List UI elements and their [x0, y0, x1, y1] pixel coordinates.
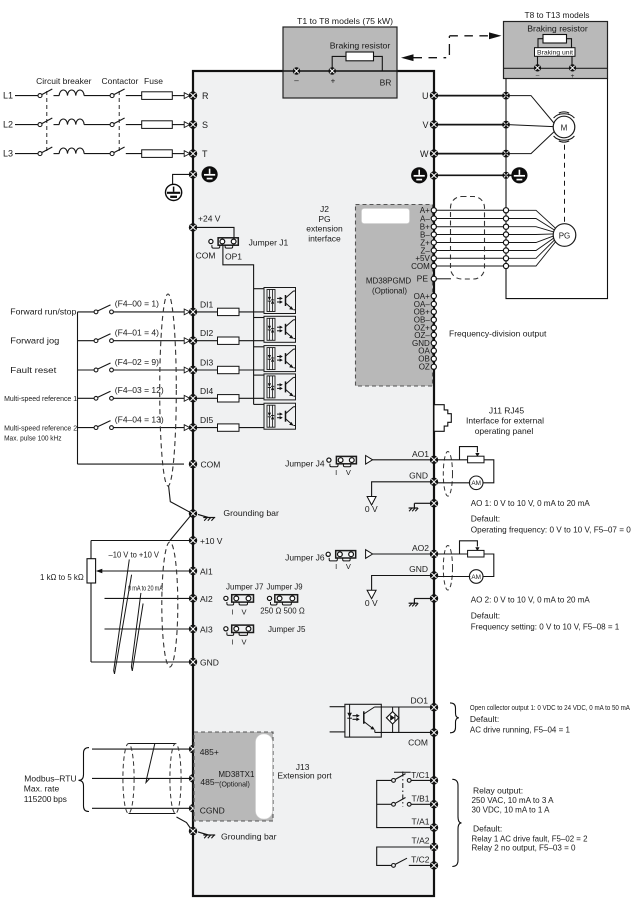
wire COM fan to PG: [509, 242, 556, 266]
main box top edge through braking box: [283, 70, 397, 72]
circuit breaker coil L2: [59, 119, 84, 125]
svg-text:PE: PE: [417, 274, 429, 284]
svg-text:Multi-speed reference 1: Multi-speed reference 1: [4, 396, 77, 403]
arrow into terminal S: [184, 122, 190, 128]
wire contactor to fuse L3: [126, 153, 142, 155]
svg-text:Braking resistor: Braking resistor: [330, 40, 391, 50]
wire J2 pin B– to PG cable: [437, 234, 504, 236]
terminal AO 2: [430, 550, 438, 558]
wire terminal to resistor DI3: [197, 369, 218, 371]
junction Z+ on motor cable: [503, 240, 508, 245]
wire J2 pin A+ to PG cable: [437, 209, 504, 211]
svg-text:+10 V: +10 V: [200, 536, 223, 546]
switch contact b DI1: [110, 310, 114, 314]
svg-text:Modbus–RTU: Modbus–RTU: [24, 773, 76, 783]
wire AO 2 to potentiometer: [438, 553, 468, 555]
terminal 485-: [189, 774, 197, 782]
svg-text:(F4–04 = 13): (F4–04 = 13): [115, 414, 164, 424]
DO1 internal stub top: [330, 706, 345, 708]
junction U on motor cable: [502, 92, 510, 100]
circuit breaker blade L1: [42, 89, 53, 95]
svg-text:I: I: [231, 638, 233, 647]
arrow into DI4: [184, 395, 190, 401]
DI2 input resistor: [218, 337, 240, 344]
DI1 input resistor: [218, 308, 240, 315]
svg-text:L1: L1: [3, 91, 13, 101]
switch contact a DI1: [94, 310, 98, 314]
svg-text:Open collector output 1: 0 VDC: Open collector output 1: 0 VDC to 24 VDC…: [470, 705, 630, 712]
wire bus stub to optocoupler DI1: [254, 288, 264, 290]
contactor blade L2: [114, 118, 125, 124]
svg-text:DO1: DO1: [411, 696, 429, 706]
wire A– fan to PG: [509, 219, 555, 230]
cable shield ellipse (AO 2): [443, 545, 452, 590]
protective earth symbol (input): [166, 184, 182, 200]
DO1 internal stub bottom: [330, 731, 345, 733]
svg-text:Grounding bar: Grounding bar: [223, 508, 279, 518]
svg-text:Jumper J6: Jumper J6: [285, 553, 325, 563]
svg-text:COM: COM: [408, 737, 428, 747]
svg-text:AI1: AI1: [200, 567, 213, 577]
svg-text:Fuse: Fuse: [144, 76, 163, 86]
svg-text:Jumper J4: Jumper J4: [285, 459, 325, 469]
svg-text:Default:: Default:: [471, 611, 500, 621]
svg-text:interface: interface: [308, 233, 341, 243]
J2 connector (white): [362, 209, 410, 224]
wire U to motor junction: [438, 95, 506, 97]
wiper loop (AO 2): [460, 541, 480, 554]
terminal - of braking unit: [534, 64, 541, 71]
wire buffer to AO 1: [373, 459, 430, 461]
arrow into DI1: [184, 309, 190, 315]
terminal + of braking unit: [569, 64, 576, 71]
terminal AI2: [189, 594, 197, 602]
svg-text:250 VAC, 10 mA to 3 A: 250 VAC, 10 mA to 3 A: [472, 795, 554, 805]
DO1 opto light arrows: [353, 714, 360, 721]
svg-text:Contactor: Contactor: [101, 76, 138, 86]
analog meter AM (AO 1): [469, 476, 483, 490]
svg-text:T8 to T13 models: T8 to T13 models: [525, 10, 590, 20]
pin A+: [431, 208, 436, 213]
terminal PE input: [189, 170, 197, 178]
pin OB: [431, 356, 436, 361]
svg-text:(Optional): (Optional): [372, 287, 407, 296]
svg-text:Relay 2 no output, F5–03 = 0: Relay 2 no output, F5–03 = 0: [472, 843, 576, 853]
chassis ground glyph 1: [198, 514, 215, 520]
chassis terminal (AO 2): [430, 594, 438, 602]
wire terminal to resistor DI1: [197, 311, 218, 313]
pin OZ: [431, 364, 436, 369]
svg-text:V: V: [241, 607, 246, 616]
svg-text:Default:: Default:: [473, 823, 502, 833]
svg-text:485–: 485–: [200, 777, 219, 787]
wire coil to contactor L2: [84, 124, 110, 126]
switch blade DI4: [98, 391, 111, 397]
switch contact a DI2: [94, 339, 98, 343]
pin OB+: [431, 309, 436, 314]
contactor linkage (dashed): [118, 91, 120, 151]
pin B+: [431, 224, 436, 229]
wire rail to switch DI5: [78, 427, 95, 429]
arrow into terminal R: [184, 93, 190, 99]
wire potentiometer to AM (AO 1): [483, 460, 494, 483]
junction B– on motor cable: [503, 232, 508, 237]
wire buffer to AO 2: [373, 553, 430, 555]
terminal COM (DO): [430, 728, 438, 736]
svg-text:MD38TX1: MD38TX1: [218, 770, 255, 779]
wire resistor to optocoupler DI2: [239, 340, 264, 342]
svg-text:AO 2: 0 V to 10 V, 0 mA to 20: AO 2: 0 V to 10 V, 0 mA to 20 mA: [471, 595, 590, 605]
wire braking resistor to BR: [374, 56, 383, 70]
svg-text:Default:: Default:: [471, 513, 500, 523]
relay 1 contact T/C1: [392, 774, 430, 783]
svg-text:U: U: [422, 91, 429, 101]
terminal V: [430, 120, 438, 128]
wire terminal to resistor DI2: [197, 340, 218, 342]
svg-text:–: –: [536, 73, 540, 80]
optocoupler DI2: [264, 316, 296, 342]
relay 1 NC bar: [394, 771, 411, 773]
terminal DI4: [189, 394, 197, 402]
PG cable shield (dashed): [451, 197, 485, 280]
pin +5V: [431, 256, 436, 261]
switch contact a DI4: [94, 396, 98, 400]
wire L2 to circuit breaker: [15, 124, 38, 126]
svg-text:operating panel: operating panel: [475, 426, 534, 436]
dashed arrow to T1-T8 box (left pointing): [401, 36, 449, 61]
svg-text:0 V: 0 V: [365, 598, 378, 608]
jumper J7: [224, 595, 254, 605]
contactor blade L3: [114, 147, 125, 153]
wire rail to switch DI2: [78, 340, 95, 342]
potentiometer (AO 2): [468, 550, 484, 557]
junction PE on motor cable: [502, 172, 509, 179]
svg-text:DI4: DI4: [200, 386, 214, 396]
svg-text:MD38PGMD: MD38PGMD: [366, 276, 412, 285]
circuit breaker contact L1: [38, 94, 42, 98]
wire DO1: [381, 706, 430, 708]
wire potentiometer to AM (AO 2): [483, 554, 494, 577]
pin A–: [431, 216, 436, 221]
svg-text:PG: PG: [318, 214, 330, 224]
wire switch to terminal DI4: [113, 397, 184, 399]
wire bus stub to optocoupler DI5: [254, 403, 264, 405]
wire GND to AM (AO 1): [438, 482, 470, 484]
switch blade DI2: [98, 334, 111, 340]
fuse L2: [142, 121, 173, 129]
svg-text:0 mA to 20 mA: 0 mA to 20 mA: [128, 585, 163, 592]
junction B+ on motor cable: [503, 224, 508, 229]
wire 485-: [92, 777, 189, 779]
wire V junction to motor: [506, 125, 553, 127]
svg-text:CGND: CGND: [200, 806, 225, 816]
wire +24V to jumper J1: [197, 227, 234, 239]
svg-text:250 Ω 500 Ω: 250 Ω 500 Ω: [260, 607, 305, 616]
svg-text:V: V: [422, 120, 428, 130]
svg-text:L2: L2: [3, 120, 13, 130]
wire J2 pin Z– to PG cable: [437, 250, 504, 252]
wire A+ fan to PG: [509, 210, 556, 228]
svg-text:Interface for external: Interface for external: [466, 416, 544, 426]
optocoupler DI3: [264, 346, 296, 372]
arrow into DI5: [184, 425, 190, 431]
wire AI1 with wiper arrow: [96, 569, 189, 573]
buffer amplifier AO 1: [366, 456, 373, 465]
relay 1 contact T/B1: [392, 798, 430, 807]
braking unit box: [535, 48, 576, 57]
wire Z+ fan to PG: [509, 236, 554, 242]
svg-text:Relay output:: Relay output:: [473, 786, 523, 796]
DO1 optocoupler box: [345, 704, 381, 737]
wire PE input: [173, 174, 189, 184]
svg-text:(F4–01 = 4): (F4–01 = 4): [115, 328, 159, 338]
motor M: [553, 112, 575, 142]
svg-text:(F4–00 = 1): (F4–00 = 1): [115, 299, 159, 309]
potentiometer (AO 1): [468, 456, 484, 463]
svg-text:Frequency setting: 0 V to 10 V: Frequency setting: 0 V to 10 V, F5–08 = …: [471, 621, 620, 631]
potentiometer 1k-5k: [87, 559, 96, 583]
svg-text:Braking unit: Braking unit: [537, 50, 573, 57]
terminal W: [430, 149, 438, 157]
svg-text:Jumper J1: Jumper J1: [249, 238, 289, 248]
chassis ground glyph (AO 1): [409, 503, 430, 511]
wire J2 pin B+ to PG cable: [437, 226, 504, 228]
svg-text:Jumper J9: Jumper J9: [267, 582, 303, 592]
switch contact a DI5: [94, 426, 98, 430]
terminal PE output: [430, 171, 438, 179]
wire U junction to motor: [506, 96, 554, 124]
encoder PG: [553, 224, 576, 247]
svg-text:Jumper J7: Jumper J7: [226, 582, 264, 592]
brace modbus: [79, 748, 90, 812]
wiper loop (AO 1): [460, 447, 480, 460]
pin OZ–: [431, 332, 436, 337]
svg-text:AO1: AO1: [412, 449, 429, 459]
switch blade DI5: [98, 421, 111, 427]
terminal GND (AO 2): [430, 571, 438, 579]
wire CGND: [92, 807, 189, 809]
svg-text:AI2: AI2: [200, 594, 213, 604]
contactor blade L1: [114, 89, 125, 95]
svg-text:DI2: DI2: [200, 328, 214, 338]
optocoupler DI1: [264, 288, 296, 314]
pin OZ+: [431, 325, 436, 330]
terminal R: [189, 91, 197, 99]
flyback diode (diamond): [386, 707, 398, 732]
wire terminal to resistor DI5: [197, 427, 218, 429]
svg-text:T/C2: T/C2: [411, 854, 430, 864]
arrow into DI2: [184, 338, 190, 344]
pin OB–: [431, 317, 436, 322]
wire W junction to motor: [506, 132, 554, 154]
terminal T/C1: [430, 776, 438, 784]
wire resistor to optocoupler DI1: [239, 311, 264, 313]
jumper J1: [209, 238, 239, 248]
svg-text:Max. rate: Max. rate: [24, 784, 60, 794]
pin OA–: [431, 301, 436, 306]
svg-text:DI5: DI5: [200, 415, 214, 425]
0V ground symbol (AO 2): [367, 590, 376, 599]
svg-text:Jumper J5: Jumper J5: [268, 624, 306, 634]
svg-text:1 kΩ to 5 kΩ: 1 kΩ to 5 kΩ: [40, 572, 84, 582]
DI3 input resistor: [218, 366, 240, 373]
circuit breaker coil L3: [59, 148, 84, 154]
pin COM: [431, 263, 436, 268]
svg-text:DI1: DI1: [200, 299, 214, 309]
wire AI2: [105, 597, 190, 599]
svg-text:(F4–02 = 9): (F4–02 = 9): [115, 357, 159, 367]
wire switch to terminal DI1: [113, 311, 184, 313]
svg-text:T1 to T8 models (75 kW): T1 to T8 models (75 kW): [297, 16, 393, 26]
wire GND to 0V (AO 2): [372, 576, 430, 591]
wire resistor to braking unit left: [538, 39, 543, 48]
wire to breaker coil L2: [54, 124, 60, 126]
svg-text:I: I: [231, 607, 233, 616]
DI common rail (left): [77, 312, 79, 464]
wire resistor to optocoupler DI3: [239, 369, 264, 371]
terminal + (DC bus plus): [328, 67, 336, 75]
junction A+ on motor cable: [503, 208, 508, 213]
svg-text:+24 V: +24 V: [198, 214, 221, 224]
brace DO1: [450, 703, 459, 733]
svg-text:S: S: [202, 120, 208, 130]
cable shield ellipse (AO 1): [443, 452, 452, 497]
wire switch to terminal DI2: [113, 340, 184, 342]
svg-text:GND: GND: [200, 658, 219, 668]
junction +5V on motor cable: [503, 256, 508, 261]
svg-text:+: +: [571, 73, 575, 80]
earth symbol motor PE: [511, 167, 527, 183]
wire potentiometer rail top: [90, 541, 92, 559]
svg-text:L3: L3: [3, 149, 13, 159]
pin GND: [431, 340, 436, 345]
wire Z– fan to PG: [509, 238, 554, 250]
DI5 input resistor: [218, 424, 240, 431]
switch contact b DI5: [110, 426, 114, 430]
terminal T/C2: [430, 861, 438, 869]
wire PE output: [438, 174, 512, 176]
svg-text:I: I: [335, 562, 337, 571]
wire contactor to fuse L1: [126, 95, 142, 97]
earth symbol at PE input terminal: [202, 166, 218, 182]
terminal +24V: [189, 223, 197, 231]
wire rail to COM: [78, 463, 185, 465]
wire terminal to resistor DI4: [197, 397, 218, 399]
switch contact b DI3: [110, 368, 114, 372]
svg-text:485+: 485+: [200, 747, 219, 757]
terminal AI3: [189, 625, 197, 633]
twist symbol 485: [146, 744, 155, 783]
485 shield drain wire: [177, 817, 192, 829]
svg-text:V: V: [346, 562, 351, 571]
svg-text:0 V: 0 V: [365, 504, 378, 514]
junction Z– on motor cable: [503, 248, 508, 253]
svg-text:AO 1: 0 V to 10 V, 0 mA to 20: AO 1: 0 V to 10 V, 0 mA to 20 mA: [471, 498, 590, 508]
svg-text:COM: COM: [201, 460, 221, 470]
twisted pair symbol 2: [131, 593, 143, 671]
DI shield drain wire: [169, 486, 191, 513]
wire rail to switch DI3: [78, 369, 95, 371]
terminal DI3: [189, 366, 197, 374]
svg-text:(Optional): (Optional): [219, 782, 250, 789]
svg-text:Forward run/stop: Forward run/stop: [10, 307, 76, 317]
pin OA+: [431, 293, 436, 298]
svg-text:Fault reset: Fault reset: [10, 365, 57, 375]
wire fuse to terminal R: [172, 95, 184, 97]
svg-text:AC drive running, F5–04 = 1: AC drive running, F5–04 = 1: [470, 724, 570, 734]
svg-text:Braking resistor: Braking resistor: [527, 24, 588, 34]
wire J2 pin +5V to PG cable: [437, 257, 504, 259]
svg-text:+: +: [331, 77, 336, 86]
potentiometer rail bottom: [90, 583, 92, 662]
DO1 opto inner strip: [349, 704, 351, 737]
terminal U: [430, 91, 438, 99]
circuit breaker blade L3: [42, 147, 53, 153]
svg-text:Multi-speed reference 2: Multi-speed reference 2: [4, 425, 77, 432]
wire bus stub to optocoupler DI2: [254, 317, 264, 319]
svg-text:Forward jog: Forward jog: [10, 336, 59, 346]
relay 2 common rail: [377, 847, 430, 865]
svg-text:extension: extension: [306, 224, 343, 234]
J2 PG extension interface label: [306, 204, 343, 243]
switch blade DI1: [98, 305, 111, 311]
wire fuse to terminal S: [172, 124, 184, 126]
wire OP1 to optocoupler bus: [223, 246, 254, 289]
shaft coupling motor to PG (dashed): [564, 145, 566, 224]
wire to breaker coil L1: [54, 95, 60, 97]
wire resistor to braking unit right: [567, 39, 572, 48]
pin Z–: [431, 248, 436, 253]
optocoupler bus vertical: [253, 289, 255, 405]
terminal AI1: [189, 567, 197, 575]
wire switch to terminal DI5: [113, 427, 184, 429]
terminal 485+: [189, 745, 197, 753]
terminal DI5: [189, 423, 197, 431]
terminal - (DC bus minus): [293, 67, 301, 75]
svg-text:V: V: [241, 638, 246, 647]
wire AI3: [105, 628, 190, 630]
wire coil to contactor L1: [84, 95, 110, 97]
0V ground symbol (AO 1): [367, 497, 376, 506]
wire COM (DO): [375, 731, 430, 733]
485 cable shield top: [129, 743, 176, 745]
svg-text:PG: PG: [559, 231, 571, 240]
J11 RJ45 connector: [434, 405, 451, 432]
pin Z+: [431, 240, 436, 245]
svg-text:AM: AM: [471, 574, 481, 581]
wire coil to contactor L3: [84, 153, 110, 155]
wire L3 to circuit breaker: [15, 153, 38, 155]
svg-text:W: W: [420, 149, 429, 159]
DI cable shield (dashed ellipse): [160, 294, 177, 486]
wire B– fan to PG: [509, 233, 554, 236]
AI cable shield (dashed ellipse): [162, 542, 178, 667]
svg-text:Extension port: Extension port: [277, 771, 332, 781]
circuit breaker linkage (dashed): [46, 91, 48, 151]
junction COM on motor cable: [503, 263, 508, 268]
AI shield drain wire: [170, 515, 191, 540]
terminal DO1: [430, 703, 438, 711]
svg-text:Operating frequency: 0 V to 10: Operating frequency: 0 V to 10 V, F5–07 …: [471, 524, 631, 534]
wire bus stub to optocoupler DI4: [254, 374, 264, 376]
svg-text:R: R: [202, 91, 209, 101]
DO1 opto LED: [347, 713, 352, 718]
jumper J4: [327, 456, 357, 466]
J13 connector (white capsule): [256, 734, 273, 819]
svg-text:V: V: [346, 468, 351, 477]
wire rail to switch DI1: [78, 311, 95, 313]
switch blade DI3: [98, 363, 111, 369]
